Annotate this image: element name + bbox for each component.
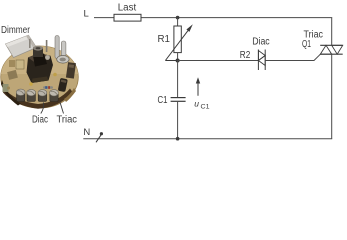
svg-text:C1: C1 xyxy=(158,95,168,106)
dimmer photo: metal pin 2 with ring xyxy=(57,41,69,63)
wire top rail corner down to triac MT2 xyxy=(331,18,333,46)
dimmer photo: solder pads xyxy=(7,73,57,90)
dimmer photo: bottom metal-top cylinders xyxy=(16,89,58,101)
wire gate rail from R1 to diac xyxy=(178,60,259,62)
wire R1 top stub xyxy=(177,18,179,26)
dimmer photo: dark component right xyxy=(66,62,76,78)
dimmer photo: PCB disc xyxy=(1,46,79,109)
svg-text:Triac: Triac xyxy=(57,115,78,126)
dimmer photo: small banded resistor xyxy=(43,86,53,89)
capacitor C1 xyxy=(171,61,186,139)
wire N rail xyxy=(83,138,332,140)
svg-text:u: u xyxy=(194,99,199,109)
dimmer photo: component leads xyxy=(29,39,31,48)
wire diac to triac gate xyxy=(265,54,320,60)
dimmer photo: metal nut glint xyxy=(45,55,50,60)
leader line to Diac label xyxy=(41,103,44,114)
svg-text:Q1: Q1 xyxy=(302,39,311,50)
triac Q1 xyxy=(320,45,343,54)
svg-text:C1: C1 xyxy=(201,104,210,111)
svg-text:R1: R1 xyxy=(158,34,171,45)
svg-text:N: N xyxy=(83,127,90,138)
dimmer photo: white film capacitor box xyxy=(6,35,37,57)
dimmer photo: potentiometer black body xyxy=(27,46,54,83)
dimmer photo: metal pin 1 xyxy=(55,36,59,59)
svg-text:Diac: Diac xyxy=(32,115,48,126)
leader line to Triac label xyxy=(60,102,64,114)
switch contact on N xyxy=(96,132,103,142)
svg-text:Diac: Diac xyxy=(252,36,270,47)
svg-text:Last: Last xyxy=(118,3,137,14)
load resistor Last xyxy=(114,14,141,21)
wire L rail left xyxy=(94,17,114,19)
svg-text:R2: R2 xyxy=(240,50,251,61)
svg-text:L: L xyxy=(84,9,89,20)
junction node top of R1 xyxy=(176,16,180,20)
voltage arrow u_C1 xyxy=(194,77,210,110)
junction node R1 bottom / C1 top xyxy=(176,59,180,63)
dimmer photo: dark cylinder (triac on board) xyxy=(58,78,68,92)
wire triac MT1 down to N rail xyxy=(331,54,333,139)
svg-text:Dimmer: Dimmer xyxy=(1,24,30,36)
dimmer photo: small parts left of pot xyxy=(3,60,25,92)
wire L rail right of Last box xyxy=(141,17,332,19)
junction node C1 bottom on N rail xyxy=(176,137,180,141)
diac xyxy=(258,50,265,71)
resistor R1 (potentiometer) xyxy=(165,24,192,60)
